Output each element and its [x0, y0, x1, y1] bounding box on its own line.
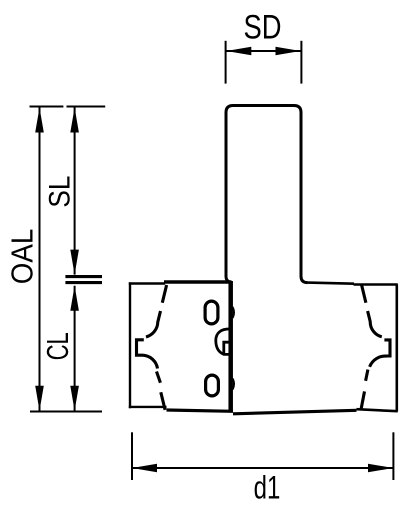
knife edge bump upper (right of plate) [233, 307, 234, 318]
right profile dash 2 with upper arc [368, 311, 382, 337]
body bottom edge far right [357, 409, 398, 411]
OAL label (rotated) [4, 229, 39, 285]
OAL arrow bottom [35, 386, 44, 411]
SD extension line left [225, 41, 227, 84]
far knife bottom edge (slanted bold) [233, 410, 357, 414]
CL dimension line [74, 286, 76, 411]
left profile dash 2 with upper arc [146, 311, 161, 337]
body top edge left [129, 282, 165, 284]
svg-text:CL: CL [40, 332, 75, 360]
screw slot lower (obround hole) [206, 375, 219, 396]
svg-text:OAL: OAL [4, 229, 39, 285]
d1 extension line left [131, 432, 133, 480]
SD arrow right [276, 47, 301, 56]
SD arrow left [226, 47, 251, 56]
break mark (double bar) [65, 277, 102, 283]
d1 dimension line [133, 467, 393, 469]
clamp bulge arc between slots [216, 329, 231, 354]
body bottom edge left [129, 406, 167, 408]
right profile dash 3 [366, 370, 368, 381]
right profile notch [384, 340, 390, 356]
d1 extension line right [392, 432, 394, 480]
left profile dash 4 [161, 392, 165, 410]
screw slot upper (obround hole) [205, 301, 218, 324]
CL arrow bottom [70, 386, 79, 411]
left profile dash 3 [157, 372, 161, 383]
d1 arrow left [132, 464, 157, 473]
SL arrow bottom [70, 250, 79, 275]
SL label (rotated) [43, 176, 76, 208]
OAL dimension line [39, 108, 41, 411]
CL label (rotated) [40, 332, 75, 360]
left profile lower arc [143, 355, 158, 368]
SD dimension line [226, 50, 300, 52]
knife edge bump lower (right of plate) [233, 379, 234, 390]
right profile lower arc [370, 356, 387, 367]
svg-text:d1: d1 [254, 469, 281, 505]
right profile dash 1 [362, 285, 366, 303]
shank outline [226, 106, 308, 283]
knife plate vertical bold [228, 281, 233, 412]
OAL arrow top [35, 108, 44, 133]
body top edge right (shank to step) [308, 283, 355, 284]
top extension line (from shank top) [30, 106, 106, 108]
shank left edge lower fillet [226, 270, 230, 282]
left profile notch [137, 340, 144, 355]
SL dimension line [74, 108, 76, 275]
body top edge far right [354, 283, 398, 286]
SL arrow top [70, 108, 79, 133]
d1 arrow right [368, 464, 393, 473]
bottom extension line (from body bottom) [30, 411, 102, 413]
svg-text:SL: SL [43, 176, 76, 208]
CL arrow top [70, 286, 79, 311]
svg-text:SD: SD [244, 8, 282, 46]
body right edge [395, 285, 398, 412]
body left edge [129, 282, 131, 408]
right profile dash 4 [361, 391, 364, 408]
SD extension line right [300, 41, 302, 84]
left profile dash 1 [162, 285, 166, 303]
knife top edge bold [164, 280, 232, 284]
clamp bulge step [224, 342, 231, 354]
knife bottom edge bold [167, 410, 234, 411]
